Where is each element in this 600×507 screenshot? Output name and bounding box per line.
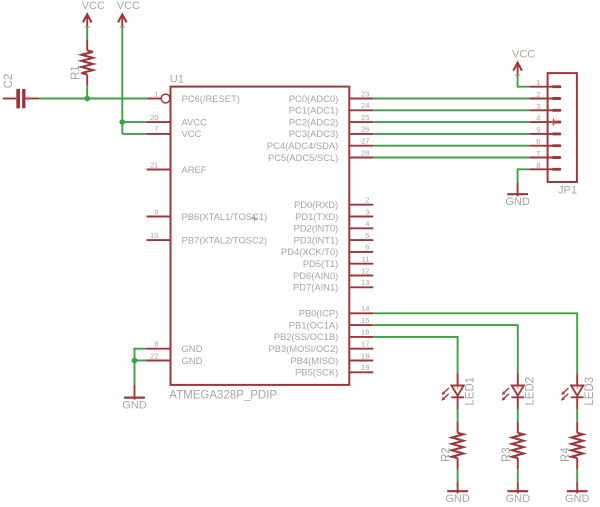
U1 pin 26 PC3(ADC3) — [289, 125, 374, 140]
wire PC4 to JP1 pin 6 — [373, 145, 529, 147]
svg-text:PB2(SS/OC1B): PB2(SS/OC1B) — [274, 331, 339, 342]
wire down to ground — [134, 361, 136, 385]
capacitor C2 — [3, 74, 40, 109]
svg-text:GND: GND — [505, 196, 530, 208]
svg-text:GND: GND — [182, 343, 203, 354]
U1 pin 21 AREF — [147, 160, 207, 175]
U1 pin 7 VCC — [147, 125, 202, 140]
U1 pin 22 GND — [147, 351, 203, 366]
svg-text:5: 5 — [365, 231, 369, 240]
svg-text:4: 4 — [365, 219, 369, 228]
U1 pin 25 PC2(ADC2) — [289, 113, 374, 128]
svg-text:8: 8 — [154, 340, 158, 349]
svg-text:26: 26 — [361, 125, 369, 134]
svg-text:PC5(ADC5/SCL): PC5(ADC5/SCL) — [268, 152, 338, 163]
svg-text:PD1(TXD): PD1(TXD) — [295, 211, 338, 222]
svg-text:PB5(SCK): PB5(SCK) — [295, 367, 338, 378]
svg-text:VCC: VCC — [117, 0, 140, 12]
svg-text:17: 17 — [361, 340, 369, 349]
U1 pin 11 PD5(T1) — [303, 255, 373, 270]
svg-text:PD0(RXD): PD0(RXD) — [294, 199, 338, 210]
JP1 pin 1 — [529, 78, 561, 88]
svg-text:20: 20 — [150, 113, 158, 122]
U1 pin 1 PC6(/RESET) — [147, 89, 240, 104]
wire JP1 pin 8 to GND — [518, 169, 530, 182]
power VCC symbol 2 — [117, 0, 140, 27]
JP1 pin 3 — [529, 102, 561, 112]
U1 pin 5 PD3(INT1) — [294, 231, 374, 246]
wire R4 to ground — [576, 469, 578, 482]
U1 pin 24 PC1(ADC1) — [289, 101, 374, 116]
wire PC2 to JP1 pin 4 — [373, 121, 529, 123]
JP1 pin 8 — [529, 161, 561, 171]
svg-text:5: 5 — [536, 125, 540, 134]
svg-text:6: 6 — [536, 137, 540, 146]
U1 pin 28 PC5(ADC5/SCL) — [268, 148, 373, 163]
ground GND (U1) — [122, 385, 147, 412]
LED LED2 — [502, 373, 537, 409]
wire VCC2 vertical — [121, 28, 123, 134]
svg-text:3: 3 — [365, 207, 369, 216]
svg-text:PC2(ADC2): PC2(ADC2) — [289, 116, 339, 127]
svg-text:PD3(INT1): PD3(INT1) — [294, 234, 339, 245]
svg-text:14: 14 — [361, 304, 369, 313]
svg-text:PB0(ICP): PB0(ICP) — [299, 308, 339, 319]
svg-text:10: 10 — [150, 231, 158, 240]
svg-text:2: 2 — [365, 196, 369, 205]
svg-text:12: 12 — [361, 266, 369, 275]
wire PC5 to JP1 pin 7 — [373, 157, 529, 159]
U1 pin 19 PB5(SCK) — [295, 363, 373, 378]
resistor R4 — [560, 422, 583, 470]
wire RESET net C2 to pin 1 — [39, 98, 147, 100]
svg-text:PD6(AIN0): PD6(AIN0) — [293, 270, 338, 281]
wire to pin 7 VCC — [122, 133, 146, 135]
U1 pin 8 GND — [147, 340, 203, 355]
svg-text:9: 9 — [154, 207, 158, 216]
svg-text:JP1: JP1 — [558, 184, 577, 196]
svg-text:AVCC: AVCC — [182, 116, 208, 127]
svg-text:PB4(MISO): PB4(MISO) — [290, 355, 338, 366]
svg-text:4: 4 — [536, 114, 540, 123]
svg-text:LED2: LED2 — [525, 377, 537, 406]
JP1 pin 7 — [529, 149, 561, 159]
svg-text:15: 15 — [361, 316, 369, 325]
svg-text:1: 1 — [154, 89, 158, 98]
LED LED1 — [441, 373, 476, 409]
svg-text:PB6(XTAL1/TOSC1): PB6(XTAL1/TOSC1) — [182, 211, 268, 222]
U1 origin cross — [251, 215, 257, 221]
wire PC0 to JP1 pin 2 — [373, 98, 529, 100]
svg-text:ATMEGA328P_PDIP: ATMEGA328P_PDIP — [169, 390, 277, 402]
svg-text:R4: R4 — [560, 447, 572, 462]
svg-text:11: 11 — [362, 255, 370, 264]
JP1 pin 2 — [529, 90, 561, 100]
U1 pin 6 PD4(XCK/T0) — [281, 243, 373, 258]
svg-text:GND: GND — [565, 493, 590, 505]
junction VCC/AVCC — [119, 119, 125, 125]
power VCC symbol 1 — [82, 0, 105, 27]
svg-text:PD7(AIN1): PD7(AIN1) — [293, 282, 338, 293]
svg-text:21: 21 — [150, 160, 158, 169]
junction GND pins — [132, 358, 138, 364]
power VCC symbol 3 — [512, 48, 535, 75]
svg-text:PD5(T1): PD5(T1) — [303, 258, 338, 269]
svg-text:22: 22 — [150, 351, 158, 360]
svg-text:GND: GND — [182, 355, 203, 366]
svg-text:AREF: AREF — [182, 164, 207, 175]
wire LED3 to R4 — [576, 409, 578, 422]
svg-text:LED1: LED1 — [464, 377, 476, 406]
resistor R2 — [441, 422, 464, 470]
svg-text:C2: C2 — [3, 74, 15, 89]
wire VCC to R1 — [86, 28, 88, 40]
svg-text:R1: R1 — [70, 65, 82, 80]
JP1 pin 6 — [529, 137, 561, 147]
wire PB1 pin 15 to LED2 — [373, 325, 518, 373]
U1 pin 10 PB7(XTAL2/TOSC2) — [147, 231, 268, 246]
U1 pin 15 PB1(OC1A) — [289, 316, 374, 331]
ground GND (JP1) — [505, 182, 530, 208]
JP1 pin 4 — [529, 114, 561, 124]
JP1 origin cross — [550, 119, 557, 126]
svg-text:27: 27 — [361, 137, 369, 146]
svg-text:19: 19 — [361, 363, 369, 372]
wire PB2 pin 16 to LED1 — [373, 337, 457, 373]
svg-text:VCC: VCC — [182, 128, 202, 139]
wire R3 to ground — [517, 469, 519, 482]
svg-text:1: 1 — [536, 78, 540, 87]
svg-text:8: 8 — [536, 161, 540, 170]
svg-text:13: 13 — [361, 278, 369, 287]
wire U1 GND pins to ground — [135, 349, 147, 361]
svg-text:GND: GND — [506, 493, 531, 505]
svg-text:PB3(MOSI/OC2): PB3(MOSI/OC2) — [268, 343, 338, 354]
U1 pin 9 PB6(XTAL1/TOSC1) — [147, 207, 268, 222]
U1 pin 4 PD2(INT0) — [294, 219, 374, 234]
wire PC1 to JP1 pin 3 — [373, 109, 529, 111]
wire PC3 to JP1 pin 5 — [373, 133, 529, 135]
U1 pin 14 PB0(ICP) — [299, 304, 374, 319]
U1 pin 13 PD7(AIN1) — [293, 278, 373, 293]
wire PB0 pin 14 to LED3 — [373, 313, 577, 373]
U1 pin 20 AVCC — [147, 113, 208, 128]
svg-text:25: 25 — [361, 113, 369, 122]
svg-text:24: 24 — [361, 101, 369, 110]
svg-text:U1: U1 — [170, 73, 184, 85]
ground GND (R4) — [565, 482, 590, 505]
svg-text:PB7(XTAL2/TOSC2): PB7(XTAL2/TOSC2) — [182, 234, 268, 245]
U1 pin 2 PD0(RXD) — [294, 196, 373, 211]
svg-text:3: 3 — [536, 102, 540, 111]
svg-text:GND: GND — [122, 400, 147, 412]
svg-text:R2: R2 — [441, 447, 453, 462]
svg-text:LED3: LED3 — [584, 377, 596, 406]
ground GND (R2) — [445, 482, 470, 505]
svg-text:PC4(ADC4/SDA): PC4(ADC4/SDA) — [267, 140, 338, 151]
wire R2 to ground — [457, 469, 459, 482]
svg-text:PC3(ADC3): PC3(ADC3) — [289, 128, 339, 139]
resistor R3 — [501, 422, 524, 470]
svg-text:PC1(ADC1): PC1(ADC1) — [289, 105, 339, 116]
svg-text:VCC: VCC — [82, 0, 105, 12]
U1 pin 3 PD1(TXD) — [295, 207, 373, 222]
svg-text:7: 7 — [536, 149, 540, 158]
svg-text:18: 18 — [361, 351, 369, 360]
LED LED3 — [561, 373, 596, 409]
svg-text:28: 28 — [361, 148, 369, 157]
U1 pin 18 PB4(MISO) — [290, 351, 373, 366]
op IC U1 ATMEGA328 body — [169, 73, 349, 401]
svg-text:PC6(/RESET): PC6(/RESET) — [182, 93, 240, 104]
svg-text:7: 7 — [154, 125, 158, 134]
svg-text:GND: GND — [445, 493, 470, 505]
svg-text:PD2(INT0): PD2(INT0) — [294, 223, 339, 234]
JP1 pin 5 — [529, 125, 561, 135]
wire LED2 to R3 — [517, 409, 519, 422]
connector JP1 body — [548, 73, 577, 196]
svg-text:R3: R3 — [501, 447, 513, 462]
wire VCC3 to JP1 pin 1 — [518, 75, 530, 86]
wire LED1 to R2 — [457, 409, 459, 422]
wire to pin 20 AVCC — [122, 121, 146, 123]
wire R1 to RESET net — [86, 86, 88, 99]
U1 pin 27 PC4(ADC4/SDA) — [267, 137, 373, 152]
svg-text:PB1(OC1A): PB1(OC1A) — [289, 319, 339, 330]
U1 pin 23 PC0(ADC0) — [289, 89, 374, 104]
svg-text:PC0(ADC0): PC0(ADC0) — [289, 93, 339, 104]
junction R1/RESET — [84, 96, 90, 102]
U1 pin 12 PD6(AIN0) — [293, 266, 373, 281]
resistor R1 — [70, 39, 93, 85]
svg-text:VCC: VCC — [512, 48, 535, 60]
svg-text:23: 23 — [361, 89, 369, 98]
svg-text:2: 2 — [536, 90, 540, 99]
U1 pin 17 PB3(MOSI/OC2) — [268, 340, 373, 355]
svg-text:PD4(XCK/T0): PD4(XCK/T0) — [281, 246, 338, 257]
ground GND (R3) — [506, 482, 531, 505]
svg-text:6: 6 — [365, 243, 369, 252]
U1 pin 16 PB2(SS/OC1B) — [274, 328, 374, 343]
svg-text:16: 16 — [361, 328, 369, 337]
